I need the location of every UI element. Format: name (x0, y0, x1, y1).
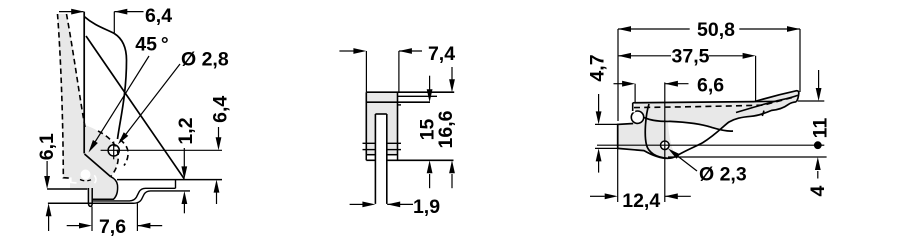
svg-text:12,4: 12,4 (622, 190, 660, 212)
svg-text:7,4: 7,4 (428, 43, 455, 65)
svg-text:1,9: 1,9 (413, 196, 440, 218)
svg-text:1,2: 1,2 (175, 117, 197, 144)
svg-text:6,6: 6,6 (697, 75, 724, 97)
svg-text:37,5: 37,5 (672, 45, 710, 67)
svg-text:16,6: 16,6 (435, 110, 457, 148)
svg-text:7,6: 7,6 (99, 216, 126, 238)
svg-text:Ø 2,8: Ø 2,8 (181, 49, 229, 71)
svg-text:6,1: 6,1 (36, 133, 58, 160)
svg-text:4: 4 (807, 185, 829, 196)
svg-text:6,4: 6,4 (145, 5, 172, 27)
svg-text:11: 11 (810, 118, 832, 139)
svg-text:45 °: 45 ° (135, 34, 168, 56)
svg-text:6,4: 6,4 (210, 96, 232, 123)
svg-text:4,7: 4,7 (586, 54, 608, 81)
svg-text:Ø 2,3: Ø 2,3 (699, 164, 747, 186)
svg-text:50,8: 50,8 (697, 19, 735, 41)
